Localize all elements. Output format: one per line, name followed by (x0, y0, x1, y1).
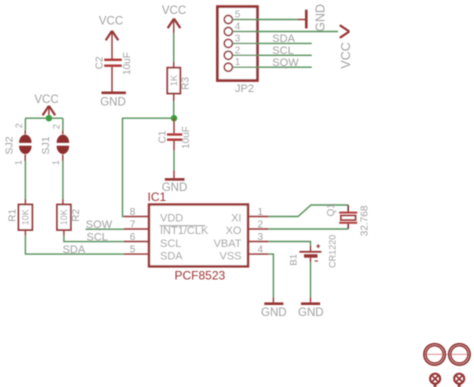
battery B1 CR1220 (288, 235, 337, 268)
svg-text:C2: C2 (95, 56, 106, 69)
svg-text:VDD: VDD (160, 212, 183, 224)
svg-text:SCL: SCL (272, 45, 293, 57)
svg-text:2: 2 (258, 219, 264, 230)
svg-text:B1: B1 (288, 254, 299, 266)
svg-text:PCF8523: PCF8523 (175, 269, 226, 283)
svg-text:JP2: JP2 (235, 83, 254, 95)
wire VBAT to battery (269, 242, 311, 252)
IC1 pin 8 VDD (124, 207, 183, 225)
wire C2 to GND (111, 67, 113, 92)
wire VSS to GND (269, 254, 274, 302)
svg-text:10K: 10K (20, 209, 30, 225)
wire battery to GND (310, 258, 312, 303)
wire JP2 pin5 to GND (232, 19, 305, 21)
svg-text:1K: 1K (169, 74, 180, 86)
svg-text:1: 1 (258, 207, 264, 218)
wire SQW net (86, 228, 125, 230)
svg-text:SJ2: SJ2 (4, 136, 16, 154)
solder jumper SJ2 (4, 123, 32, 165)
svg-text:SQW: SQW (272, 57, 299, 69)
capacitor C1 10uF (158, 118, 193, 149)
svg-text:4: 4 (258, 244, 264, 255)
svg-text:R2: R2 (71, 208, 82, 221)
svg-text:XI: XI (231, 212, 241, 224)
svg-text:C1: C1 (158, 130, 169, 143)
JP2 pin 4 (224, 22, 241, 36)
IC1 pin 1 XI (231, 207, 269, 225)
wire R2 to SCL net (64, 230, 125, 242)
svg-text:10K: 10K (59, 209, 69, 225)
svg-text:SQW: SQW (86, 219, 113, 231)
svg-text:GND: GND (261, 307, 287, 319)
svg-text:GND: GND (314, 4, 328, 32)
svg-text:5: 5 (130, 244, 136, 255)
mounting hole H1 (424, 344, 445, 365)
solder jumper SJ1 (40, 124, 69, 165)
wire JP2 pin3 SDA (232, 42, 311, 44)
wire SJ1 to R2 (62, 154, 64, 204)
power VCC (JP2 pin4, rotated) (339, 25, 353, 68)
svg-text:GND: GND (298, 307, 324, 319)
IC1 pin 6 SCL (124, 232, 181, 250)
svg-text:7: 7 (130, 219, 136, 230)
ground (below C1) (162, 178, 188, 194)
ground (below VSS) (261, 302, 287, 319)
svg-text:R1: R1 (8, 208, 19, 221)
wire C1 to GND (173, 141, 175, 178)
svg-text:VCC: VCC (162, 5, 186, 17)
svg-text:VCC: VCC (339, 42, 353, 68)
wire VCC to SJ2 and SJ1 (25, 118, 63, 134)
svg-text:2: 2 (14, 123, 24, 128)
svg-text:SCL: SCL (160, 238, 181, 250)
wire VCC to R3 (173, 19, 175, 68)
power VCC (above SJ1/SJ2) (34, 94, 58, 115)
svg-text:VCC: VCC (99, 16, 123, 28)
connector JP2 (217, 7, 257, 95)
IC IC1 PCF8523 (148, 190, 249, 283)
fiducial F2 (454, 374, 464, 387)
svg-text:IC1: IC1 (148, 190, 167, 204)
svg-text:R3: R3 (181, 77, 192, 90)
JP2 pin 2 (224, 45, 241, 59)
resistor R3 1K (167, 68, 191, 94)
svg-text:SDA: SDA (160, 251, 183, 263)
IC1 pin 3 VBAT (214, 232, 269, 250)
svg-text:3: 3 (258, 232, 264, 243)
svg-text:SDA: SDA (272, 33, 295, 45)
crystal Q1 32.768 (326, 203, 370, 237)
wire JP2 pin1 SQW (232, 66, 311, 68)
power VCC (above C2) (99, 16, 123, 41)
svg-text:8: 8 (130, 207, 136, 218)
mounting hole H1 centerline (424, 353, 470, 355)
svg-text:XO: XO (226, 225, 242, 237)
svg-text:CR1220: CR1220 (327, 235, 337, 268)
wire VCC stem (48, 106, 50, 118)
wire R3 to junction (173, 94, 175, 119)
wire XI to crystal (269, 205, 349, 217)
wire junction to VDD pin 8 (123, 118, 175, 216)
wire R1 to SDA net (25, 230, 124, 254)
svg-text:Q1: Q1 (326, 203, 337, 217)
ground (below B1) (298, 302, 324, 319)
svg-text:VBAT: VBAT (214, 238, 242, 250)
svg-text:SCL: SCL (87, 231, 108, 243)
svg-text:32.768: 32.768 (359, 205, 370, 236)
JP2 pin 3 (224, 33, 241, 47)
svg-text:10uF: 10uF (122, 52, 133, 75)
wire JP2 pin4 to VCC (232, 31, 338, 33)
svg-text:6: 6 (130, 232, 136, 243)
svg-text:10uF: 10uF (181, 126, 192, 149)
IC1 pin 5 SDA (124, 244, 183, 262)
svg-text:1: 1 (14, 160, 24, 165)
wire JP2 pin2 SCL (232, 54, 311, 56)
capacitor C2 10uF (95, 52, 134, 75)
JP2 pin 5 (224, 10, 241, 24)
wire VCC to C2 (111, 31, 113, 59)
svg-text:INT1/CLK: INT1/CLK (160, 225, 209, 237)
junction (VCC node above jumpers) (46, 115, 52, 121)
svg-text:VSS: VSS (219, 251, 241, 263)
resistor R1 10K (8, 205, 33, 231)
svg-text:1: 1 (51, 160, 61, 165)
svg-text:SJ1: SJ1 (40, 136, 52, 154)
IC1 pin 7 INT1/CLK (124, 219, 209, 237)
fiducial F1 (430, 374, 440, 387)
power VCC (above R3) (162, 5, 186, 28)
IC1 pin 4 VSS (219, 244, 268, 262)
wire SJ2 to R1 (24, 154, 26, 204)
ground (below C2) (100, 92, 126, 109)
mounting hole H2 (449, 344, 470, 365)
ground (JP2 pin5, rotated) (305, 4, 328, 32)
IC1 pin 2 XO (226, 219, 269, 237)
svg-text:SDA: SDA (63, 244, 86, 256)
resistor R2 10K (57, 205, 82, 231)
JP2 pin 1 (224, 57, 241, 71)
junction (R3/C1/VDD node) (171, 115, 177, 121)
svg-text:VCC: VCC (34, 94, 58, 106)
wire XO to crystal (269, 228, 349, 230)
svg-text:GND: GND (100, 97, 126, 109)
svg-text:2: 2 (52, 124, 62, 129)
